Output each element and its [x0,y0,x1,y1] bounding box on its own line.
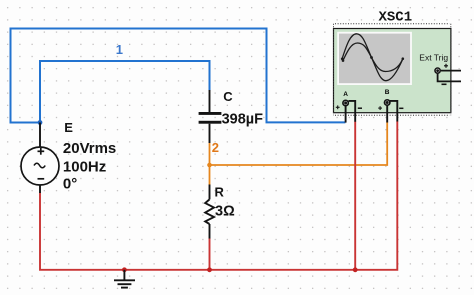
selection marquee top dashes [335,23,450,25]
svg-text:XSC1: XSC1 [379,9,413,25]
svg-text:R: R [215,185,225,200]
wire net1 blue: source junction to scope A+ [11,29,346,123]
oscilloscope XSC1 body [334,29,451,113]
scope waveform A (outer sine) [342,34,403,81]
svg-text:Ext Trig: Ext Trig [419,52,448,62]
node 2 junction dot [207,163,212,168]
resistor R [205,185,214,239]
terminal B plus stub [386,105,388,122]
wire net1 blue: source junction to capacitor top [40,61,210,123]
scope waveform B (inner sine) [343,43,403,72]
selection marquee left dashes [333,24,335,116]
svg-text:0°: 0° [63,176,77,193]
svg-text:E: E [64,120,73,135]
terminal B minus hook [390,101,397,122]
waveform end dots [341,56,404,62]
svg-text:2: 2 [212,140,219,155]
Ext Trig minus stub wire [438,74,461,82]
junction dot ground at resistor [207,267,212,272]
svg-text:398µF: 398µF [222,112,264,128]
terminal A minus hook [349,101,356,122]
svg-text:100Hz: 100Hz [63,158,106,175]
terminal B connector [378,100,403,110]
terminal A plus stub [345,106,347,123]
wire net0 red: resistor bottom to ground rail [209,238,211,270]
svg-text:A: A [343,91,348,98]
svg-text:C: C [223,89,233,104]
Ext Trig plus stub wire [441,70,461,72]
terminal A connector [336,100,362,109]
svg-text:B: B [385,89,390,96]
svg-text:1: 1 [116,42,123,57]
ground [114,270,135,288]
node 1 junction dot [38,120,43,125]
scope screen [337,32,412,85]
wire net2 orange: junction to scope B+ [210,122,388,166]
selection marquee right dashes [450,24,452,116]
wire net2 orange: capacitor bottom to junction [209,143,211,165]
junction dot ground at ground symbol [122,267,127,272]
svg-text:20Vrms: 20Vrms [63,140,116,157]
wire net2 orange: junction to resistor top [209,165,211,185]
selection marquee bottom dashes [335,114,450,116]
wire net0 red: source bottom along ground rail up to scope B- [40,121,397,269]
wire net0 red: scope A- drop to ground rail [354,122,356,270]
AC source E [21,123,59,194]
Ext Trig connector [435,64,448,85]
svg-text:3Ω: 3Ω [215,204,235,220]
capacitor C [199,90,222,143]
junction dot ground at scope A- [353,267,358,272]
